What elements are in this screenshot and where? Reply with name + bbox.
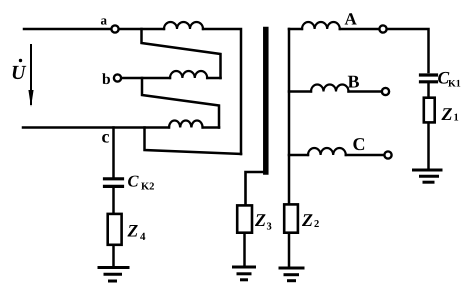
transformer core (thick bar) (263, 30, 269, 173)
impedance Z4 (108, 214, 122, 245)
voltage arrow U (30, 45, 32, 104)
label CK2 C (128, 176, 139, 187)
label CK2 subscript (141, 183, 149, 190)
label Z1 subscript (454, 114, 458, 121)
label Z2 subscript (314, 220, 318, 227)
impedance Z3 (237, 205, 252, 232)
wire Z1 to ground (427, 124, 430, 169)
ground (Z2) (280, 268, 303, 281)
label c (102, 134, 109, 143)
impedance Z1 (424, 98, 435, 123)
label CK1 C (438, 72, 449, 84)
ground (Z4) (99, 268, 128, 282)
label U dot (derivative dot) (19, 59, 22, 62)
inductor winding B (secondary) (311, 85, 349, 92)
wire Z2 to ground (288, 235, 291, 267)
label Z3 Z (255, 214, 266, 226)
secondary bus vertical (288, 29, 291, 204)
wire coil C to terminal C (346, 154, 384, 157)
wire top phase-a left segment (24, 28, 111, 31)
wire a-tap zigzag to coil-b right end (142, 29, 221, 78)
inductor winding a (primary) (164, 22, 203, 29)
wire coil-b right end (207, 77, 220, 80)
ground (Z1) (414, 170, 442, 182)
terminal b (114, 74, 121, 81)
wire coil-c right end (203, 126, 219, 129)
terminal A (379, 25, 386, 32)
wire bus to coil C (289, 154, 308, 157)
label C (353, 138, 364, 150)
label Z3 subscript (267, 223, 271, 230)
wire coil B to terminal B (349, 90, 382, 93)
wire phase-a from terminal to coil (119, 28, 164, 31)
wire bus to coil A (289, 28, 302, 31)
wire Z4 to ground (112, 246, 115, 266)
wire Z3 to ground (243, 235, 246, 266)
label B (348, 76, 359, 88)
wire coil-a right end to zig vertical (203, 29, 241, 154)
wire CK2 to Z4 (112, 189, 115, 213)
label Z2 Z (302, 214, 313, 226)
wire terminal A to CK1 branch (387, 29, 429, 72)
label Z1 Z (441, 108, 452, 120)
wire phase-b from terminal to coil (122, 77, 171, 80)
wire coil A to terminal A (340, 28, 379, 31)
label a (101, 18, 107, 24)
label Z4 subscript (140, 233, 145, 240)
wire bus to coil B (289, 90, 311, 93)
inductor winding C (secondary) (308, 148, 346, 155)
label Z4 Z (127, 225, 137, 236)
label A (345, 13, 357, 24)
terminal C (384, 151, 391, 158)
inductor winding c (primary) (169, 121, 203, 128)
inductor winding A (secondary) (302, 22, 340, 29)
wire node c down to CK2 (112, 128, 115, 179)
impedance Z2 (284, 204, 298, 232)
label U (voltage) (13, 66, 27, 79)
wire core bottom jog to Z3 (246, 172, 265, 204)
wire c-tap zigzag to coil-a vertical (145, 128, 242, 155)
terminal B (382, 88, 389, 95)
capacitor CK1 (421, 73, 437, 76)
label CK1 subscript (448, 80, 456, 87)
ground (Z3) (234, 267, 255, 280)
label b (102, 73, 110, 84)
inductor winding b (primary) (170, 71, 207, 78)
wire b-tap zigzag to coil-c right end (142, 78, 219, 128)
wire bottom phase-c left segment (23, 126, 169, 129)
terminal a (111, 25, 118, 32)
capacitor CK2 (105, 177, 123, 180)
wire CK1 to Z1 (427, 83, 430, 96)
